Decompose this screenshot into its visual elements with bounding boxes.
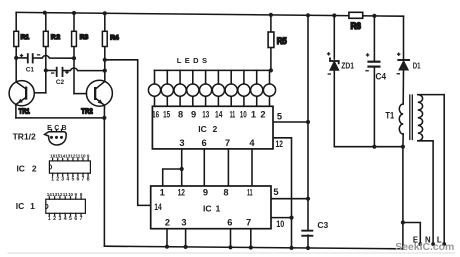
- capacitor C2: [51, 67, 69, 86]
- wire IC1 pin2 to 0V: [166, 229, 168, 247]
- svg-text:10: 10: [276, 219, 284, 229]
- LED D7 of bargraph: [225, 70, 237, 106]
- LED D1 of bargraph: [148, 70, 160, 106]
- svg-text:2: 2: [165, 217, 170, 227]
- svg-text:R3: R3: [80, 34, 89, 41]
- junction top rail C4: [372, 14, 376, 18]
- wire IC1 pin10 to 0V: [271, 217, 292, 219]
- diode D1: [397, 53, 421, 75]
- wire TR2 base lead: [74, 93, 86, 95]
- svg-text:8: 8: [178, 110, 183, 120]
- wire IC1 pin7 to 0V: [250, 229, 252, 248]
- svg-text:R2: R2: [51, 34, 61, 41]
- IC2 DIP-16 pinout package: [16, 154, 90, 183]
- svg-text:IC: IC: [16, 201, 25, 211]
- wire C1 link TR1 collector to TR2 base with hop over R2 line: [16, 56, 74, 59]
- svg-text:15: 15: [163, 110, 170, 120]
- wire emitter rail: [16, 117, 104, 119]
- svg-text:C2: C2: [56, 79, 65, 86]
- svg-text:9: 9: [75, 192, 78, 197]
- svg-text:11: 11: [230, 110, 236, 120]
- resistor R5: [268, 32, 287, 48]
- svg-text:4: 4: [249, 138, 255, 148]
- svg-text:2: 2: [260, 110, 265, 120]
- svg-text:7: 7: [225, 138, 230, 148]
- wire earth terminal branch: [403, 223, 420, 244]
- svg-text:2: 2: [213, 124, 218, 134]
- wire tap to IC1 pin1: [163, 169, 182, 186]
- svg-text:C3: C3: [317, 220, 328, 230]
- junction top rail R4: [103, 11, 107, 15]
- wire R2 branch vertical: [45, 13, 47, 93]
- svg-text:14: 14: [154, 202, 162, 212]
- wire V+ to IC pin5 / C3 vertical: [307, 15, 309, 248]
- capacitor C3: [301, 220, 328, 237]
- wire bottom 0V rail: [104, 246, 402, 249]
- svg-text:12: 12: [276, 139, 283, 149]
- svg-text:7: 7: [80, 216, 83, 222]
- svg-text:ZD1: ZD1: [341, 62, 354, 71]
- wire T1 primary bottom to 0V: [402, 134, 404, 249]
- junction IC2 pin3 tap: [180, 167, 184, 171]
- transformer T1: [385, 95, 422, 141]
- wire ZD1 branch: [333, 16, 335, 147]
- resistor R6: [349, 12, 363, 31]
- transistor TR1: [9, 81, 34, 116]
- junction C2 left on R2 line: [44, 68, 48, 72]
- svg-text:16: 16: [152, 110, 159, 120]
- svg-text:1: 1: [30, 201, 35, 211]
- junction top rail ZD1: [332, 13, 336, 17]
- svg-text:10: 10: [68, 192, 74, 197]
- svg-text:6: 6: [227, 217, 232, 227]
- wire IC1 pin3 to 0V: [185, 229, 187, 247]
- wire IC2 pin3 to IC1 pin12: [181, 149, 183, 186]
- svg-text:1: 1: [51, 176, 54, 182]
- wire IC1 pin5 to V+: [271, 198, 308, 200]
- svg-text:3: 3: [58, 216, 61, 222]
- svg-text:2: 2: [53, 216, 56, 222]
- svg-text:14: 14: [215, 110, 223, 120]
- junction top rail R3: [72, 11, 76, 15]
- terminal L: [437, 235, 446, 246]
- svg-text:3: 3: [179, 138, 184, 148]
- wire TR1 base lead: [34, 92, 46, 94]
- svg-text:9: 9: [87, 154, 90, 159]
- capacitor C4: [365, 53, 386, 81]
- wire TR1 emitter lead: [15, 104, 17, 118]
- svg-text:6: 6: [202, 138, 207, 148]
- svg-text:C1: C1: [26, 66, 35, 73]
- junction top rail V308: [306, 13, 310, 17]
- wire IC2 pin7 to IC1 pin8: [227, 149, 229, 186]
- wire emitters to bottom rail: [103, 118, 105, 246]
- wire IC1 pin6 to 0V: [230, 229, 232, 248]
- svg-text:SeekIC.com: SeekIC.com: [395, 241, 454, 253]
- wire T1 secondary top to L terminal: [418, 95, 444, 243]
- resistor R3: [72, 31, 89, 46]
- terminal N: [425, 235, 435, 246]
- svg-text:9: 9: [191, 110, 196, 120]
- svg-text:R4: R4: [110, 35, 119, 42]
- junction top rail R5: [269, 13, 273, 17]
- svg-text:11: 11: [247, 187, 253, 197]
- LED D5 of bargraph: [200, 70, 212, 106]
- svg-text:TR1/2: TR1/2: [13, 132, 36, 142]
- wire IC2 pin4 to IC1 pin11: [251, 149, 253, 186]
- svg-text:9: 9: [203, 187, 208, 197]
- LED D10 of bargraph: [263, 70, 275, 106]
- svg-text:8: 8: [80, 192, 83, 197]
- svg-text:10: 10: [80, 154, 86, 159]
- resistor R2: [43, 31, 61, 46]
- svg-text:D1: D1: [413, 61, 421, 71]
- transistor TR2: [81, 80, 112, 115]
- terminal E: [413, 235, 422, 246]
- LED D4 of bargraph: [187, 70, 199, 106]
- svg-text:R5: R5: [277, 36, 288, 47]
- junction LED bus R5: [269, 68, 273, 72]
- wire R1 branch vertical: [15, 12, 17, 82]
- wire top supply rail: [16, 12, 403, 16]
- junction R4 line to IC1 pin14 wire: [103, 58, 107, 62]
- svg-text:R1: R1: [21, 34, 30, 41]
- svg-text:2: 2: [32, 163, 37, 173]
- svg-text:T1: T1: [385, 111, 394, 121]
- svg-text:7: 7: [82, 176, 85, 182]
- wire ZD1 bottom to transformer node: [334, 146, 403, 148]
- wire T1 secondary bottom to N terminal: [418, 141, 433, 243]
- LED D6 of bargraph: [212, 70, 224, 106]
- svg-text:5: 5: [71, 176, 74, 182]
- svg-text:TR2: TR2: [81, 107, 93, 116]
- IC IC2: [152, 106, 273, 149]
- junction earth branch: [401, 220, 405, 224]
- zener diode ZD1: [327, 52, 355, 75]
- svg-text:5: 5: [69, 216, 72, 222]
- wire TR2 emitter lead: [103, 105, 105, 118]
- wire R3 branch vertical: [73, 13, 75, 94]
- LED D2 of bargraph: [161, 70, 173, 106]
- svg-text:7: 7: [246, 217, 251, 227]
- junction bottom rail IC1 pin3: [184, 245, 188, 249]
- junction C2 right on R4 line: [103, 69, 107, 73]
- junction bottom rail IC1 pin6: [228, 245, 232, 249]
- junction C1 right on R3 line: [72, 56, 76, 60]
- junction emitter rail: [102, 116, 106, 120]
- junction IC1 pin10: [289, 216, 293, 220]
- IC IC1: [151, 186, 271, 229]
- svg-text:6: 6: [74, 216, 77, 222]
- LED D3 of bargraph: [174, 70, 186, 106]
- svg-text:1: 1: [160, 187, 165, 197]
- junction bottom rail IC1 pin2: [165, 245, 169, 249]
- wire D1 to T1 primary: [402, 70, 404, 104]
- svg-text:5: 5: [277, 112, 282, 122]
- wire IC2 pin12 down to 0V rail: [273, 138, 292, 248]
- svg-text:5: 5: [273, 187, 278, 197]
- LED D9 of bargraph: [251, 70, 263, 106]
- junction T1 primary bottom: [401, 145, 405, 149]
- junction bottom rail C3: [306, 246, 310, 250]
- svg-text:1: 1: [251, 110, 256, 120]
- transistor pinout TR1/2 package: [13, 125, 67, 145]
- svg-text:10: 10: [240, 110, 247, 120]
- svg-text:IC: IC: [16, 163, 25, 173]
- svg-text:C4: C4: [376, 72, 387, 82]
- wire C4 branch: [373, 16, 375, 147]
- resistor R4: [102, 31, 119, 46]
- wire R4 node to IC1 pin14: [105, 60, 151, 206]
- junction bottom rail IC1 pin7: [249, 245, 253, 249]
- wire C2 link TR1 base to TR2 collector with hop over R3 line: [46, 68, 105, 71]
- LED D8 of bargraph: [238, 70, 250, 106]
- resistor R1: [14, 31, 30, 46]
- svg-text:3: 3: [181, 217, 186, 227]
- junction IC2 pin5 on V308: [306, 120, 310, 124]
- svg-text:8: 8: [223, 187, 228, 197]
- capacitor C1: [20, 53, 41, 73]
- wire top rail corner down to D1: [403, 16, 405, 59]
- svg-text:12: 12: [178, 187, 185, 197]
- svg-text:6: 6: [76, 176, 79, 182]
- svg-text:1: 1: [216, 204, 221, 214]
- svg-text:3: 3: [61, 176, 64, 182]
- svg-text:4: 4: [66, 176, 69, 182]
- junction top rail R2: [43, 11, 47, 15]
- junction IC1 pin5 on V308: [306, 197, 310, 201]
- wire IC2 pin5 to V+: [273, 121, 308, 123]
- wire R5 branch vertical: [270, 15, 272, 71]
- wire LED anode bus: [154, 69, 271, 71]
- svg-text:IC: IC: [203, 204, 212, 214]
- svg-text:1: 1: [48, 216, 51, 222]
- svg-text:R6: R6: [350, 21, 361, 31]
- junction ZD1 C4 node: [372, 145, 376, 149]
- junction bottom rail pin12 drop: [289, 246, 293, 250]
- svg-text:13: 13: [202, 110, 209, 120]
- svg-text:LEDS: LEDS: [177, 56, 211, 65]
- svg-text:8: 8: [87, 176, 90, 182]
- svg-text:4: 4: [64, 216, 67, 222]
- svg-text:2: 2: [56, 176, 59, 182]
- junction C1 left: [14, 56, 18, 60]
- wire IC2 pin6 to IC1 pin9: [203, 149, 205, 186]
- scan artifact bottom line: [8, 252, 455, 254]
- svg-text:TR1: TR1: [19, 107, 30, 116]
- wire R4 branch vertical: [104, 13, 106, 81]
- IC1 DIP-14 pinout package: [16, 192, 86, 222]
- svg-text:IC: IC: [198, 124, 207, 134]
